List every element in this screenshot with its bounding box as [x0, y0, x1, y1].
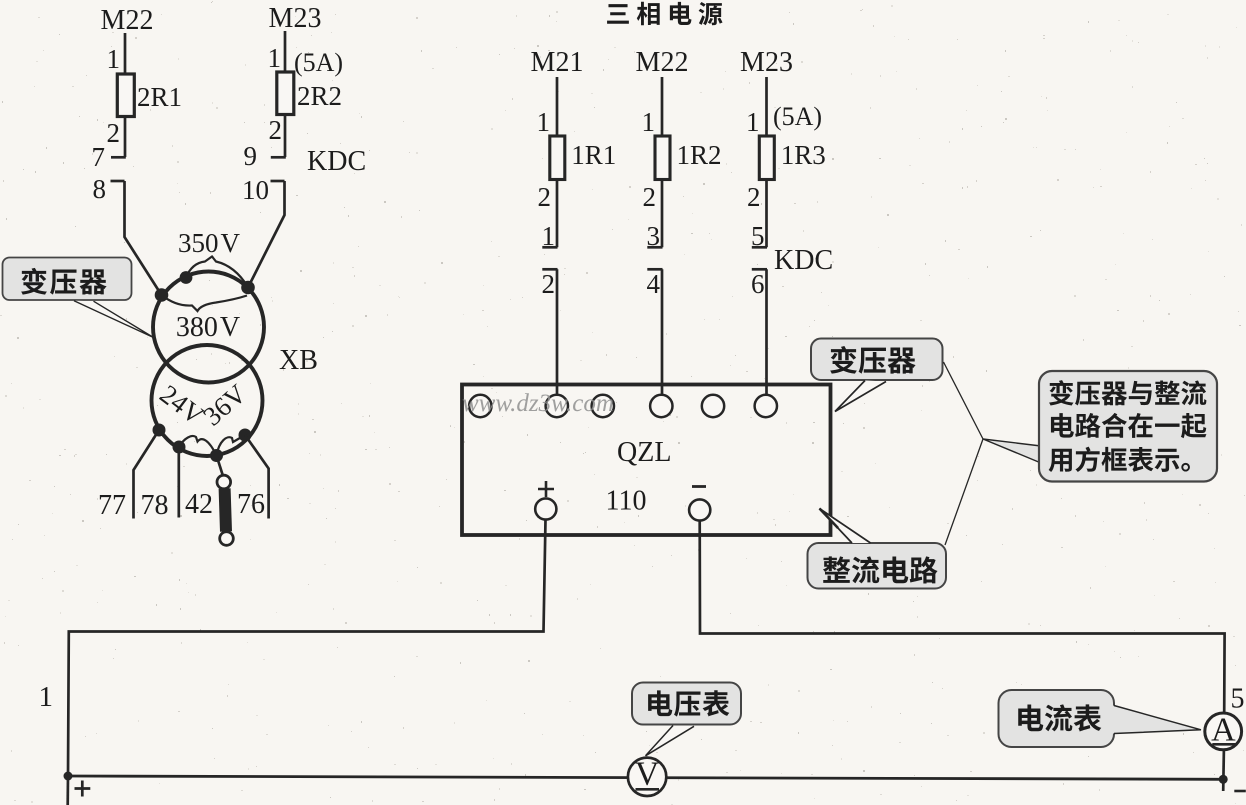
- resistor 1R3: [759, 136, 774, 180]
- svg-text:M21: M21: [531, 47, 584, 78]
- svg-text:9: 9: [244, 141, 258, 171]
- wire through 2R1: [124, 75, 127, 157]
- plug link lower eye: [220, 532, 234, 546]
- svg-text:XB: XB: [279, 345, 318, 376]
- secondary tap dot 76: [239, 429, 252, 442]
- bottom bus wire: [68, 776, 1223, 779]
- tap dot right (terminal from 10): [241, 281, 255, 295]
- resistor 2R1: [117, 74, 134, 117]
- svg-text:1: 1: [39, 681, 54, 713]
- svg-text:110: 110: [606, 486, 647, 517]
- secondary winding scallop curls: [159, 430, 245, 456]
- svg-text:380V: 380V: [176, 312, 240, 343]
- plus sign of QZL output: [538, 481, 554, 497]
- QZL input terminal 1: [469, 395, 491, 417]
- wire ammeter to bottom bus: [1222, 750, 1225, 791]
- callout box 整流电路 (rectifier circuit): [808, 543, 947, 589]
- wire 4 to rectifier box: [661, 269, 664, 396]
- svg-text:M22: M22: [101, 5, 154, 36]
- KDC contact terminal 5 tick: [752, 246, 767, 249]
- svg-text:2: 2: [542, 269, 556, 299]
- svg-text:1R2: 1R2: [677, 140, 722, 170]
- svg-text:1R1: 1R1: [571, 140, 616, 170]
- 350V tap brace: [186, 257, 248, 287]
- KDC contact terminal 6 tick: [752, 268, 767, 271]
- KDC contact terminal 10 tick: [271, 180, 285, 183]
- wire 2 to rectifier box: [556, 269, 559, 396]
- resistor 2R2: [277, 72, 294, 115]
- QZL input terminal 2: [546, 395, 568, 417]
- note box: transformer and rectifier are drawn as one square box: [1039, 371, 1217, 482]
- svg-text:42: 42: [185, 489, 213, 520]
- minus sign of QZL output: [692, 485, 706, 488]
- QZL input terminal 5: [702, 395, 724, 417]
- svg-text:3: 3: [647, 221, 661, 251]
- svg-text:1: 1: [268, 43, 282, 73]
- svg-text:7: 7: [92, 142, 106, 172]
- tap dot left (terminal from 8): [155, 288, 169, 302]
- title 三相电源 (three-phase supply): [607, 2, 722, 26]
- secondary tap dot 78: [173, 441, 186, 454]
- svg-text:V: V: [635, 756, 660, 793]
- left bus stub: [66, 776, 69, 805]
- wire 10 to transformer tap: [248, 181, 285, 288]
- resistor 1R1: [550, 136, 565, 180]
- KDC contact terminal 2 tick: [542, 268, 557, 271]
- svg-text:76: 76: [237, 489, 265, 520]
- svg-text:M22: M22: [636, 47, 689, 78]
- svg-text:1: 1: [107, 44, 121, 74]
- callout tail to ammeter: [1113, 706, 1201, 734]
- svg-text:1: 1: [642, 107, 656, 137]
- QZL input terminal 4: [650, 395, 672, 417]
- wire 8 to transformer tap: [125, 181, 162, 295]
- note box tail: [983, 439, 1041, 463]
- svg-text:1: 1: [542, 221, 556, 251]
- KDC contact terminal 9 tick: [271, 156, 286, 159]
- svg-text:M23: M23: [740, 47, 793, 78]
- svg-text:2: 2: [747, 182, 761, 212]
- svg-text:www.dz3w.com: www.dz3w.com: [462, 390, 614, 417]
- svg-text:6: 6: [751, 269, 765, 299]
- callout box 电压表 (voltmeter): [632, 683, 741, 725]
- secondary tap dot 42: [210, 449, 223, 462]
- svg-text:(5A): (5A): [294, 48, 343, 77]
- minus label bottom-right: [1234, 790, 1246, 793]
- svg-text:5: 5: [751, 221, 765, 251]
- svg-text:2: 2: [269, 115, 283, 145]
- callout tail to transformer: [74, 301, 154, 338]
- wire tap to terminal 78: [177, 447, 180, 518]
- junction node -: [1219, 775, 1228, 784]
- QZL output terminal +: [535, 498, 556, 519]
- svg-text:1: 1: [537, 107, 551, 137]
- wire through 1R1: [556, 137, 559, 247]
- transformer XB secondary winding (24V/36V circle): [152, 345, 263, 456]
- svg-text:350V: 350V: [178, 228, 241, 258]
- svg-text:KDC: KDC: [774, 245, 833, 276]
- connector line from 整流电路 callout to note: [945, 439, 983, 545]
- wire tap to terminal 77: [134, 430, 160, 519]
- KDC contact terminal 7 tick: [111, 156, 126, 159]
- wire tap 42 to plug link: [217, 456, 224, 477]
- svg-text:KDC: KDC: [307, 146, 366, 177]
- wire M22 to 1R2: [661, 77, 664, 137]
- callout tail to QZL top-right corner: [835, 381, 886, 412]
- KDC contact terminal 1 tick: [542, 246, 557, 249]
- QZL input terminal 3: [592, 395, 614, 417]
- wire M22 to 2R1: [124, 33, 127, 75]
- svg-text:1: 1: [746, 107, 760, 137]
- svg-text:8: 8: [93, 174, 107, 204]
- KDC contact terminal 4 tick: [647, 268, 662, 271]
- svg-text:10: 10: [242, 175, 269, 205]
- wire through 2R2: [284, 73, 287, 157]
- wire M23 to 1R3: [765, 77, 768, 137]
- svg-text:2: 2: [538, 182, 552, 212]
- wire QZL + output to left bus: [68, 520, 546, 777]
- plug link upper eye: [217, 475, 231, 489]
- svg-text:78: 78: [141, 490, 169, 521]
- wire M23 to 2R2: [284, 31, 287, 73]
- callout box 电流表 (ammeter): [999, 690, 1115, 747]
- svg-text:2: 2: [643, 182, 657, 212]
- svg-text:M23: M23: [269, 3, 322, 34]
- svg-text:77: 77: [98, 490, 126, 521]
- wire 6 to rectifier box: [765, 269, 768, 396]
- tap dot 350V: [180, 271, 193, 284]
- ammeter A: [1205, 712, 1242, 750]
- resistor 1R2: [655, 136, 670, 180]
- rectifier/transformer unit QZL box: [462, 385, 831, 536]
- 380V tap brace: [162, 295, 248, 311]
- KDC contact terminal 8 tick: [111, 180, 125, 183]
- wire QZL - output to ammeter: [700, 521, 1225, 714]
- plus label bottom-left: [75, 781, 91, 797]
- svg-text:2: 2: [107, 118, 121, 148]
- secondary tap dot 77: [153, 424, 166, 437]
- wire through 1R3: [765, 137, 768, 247]
- connector line from 变压器 callout to note: [944, 362, 984, 439]
- callout box 变压器 (transformer, left): [3, 258, 132, 301]
- wire through 1R2: [661, 137, 664, 247]
- QZL output terminal -: [689, 499, 710, 520]
- svg-text:2R2: 2R2: [297, 81, 342, 111]
- transformer XB primary winding (380V circle): [153, 272, 264, 383]
- svg-text:QZL: QZL: [617, 437, 671, 468]
- svg-text:1R3: 1R3: [781, 140, 826, 170]
- plug link body: [225, 489, 226, 532]
- callout box 变压器 (transformer, right): [811, 339, 943, 381]
- svg-text:4: 4: [647, 269, 661, 299]
- voltmeter V: [628, 756, 666, 797]
- callout tail to QZL bottom-right corner: [820, 509, 871, 544]
- junction node +: [64, 772, 73, 781]
- svg-text:2R1: 2R1: [137, 82, 182, 112]
- callout tail to voltmeter: [646, 726, 695, 756]
- wire M21 to 1R1: [556, 77, 559, 137]
- KDC contact terminal 3 tick: [647, 246, 662, 249]
- svg-text:(5A): (5A): [773, 102, 822, 131]
- QZL input terminal 6: [755, 395, 777, 417]
- wire tap to terminal 76: [245, 435, 269, 519]
- svg-text:5: 5: [1231, 684, 1245, 715]
